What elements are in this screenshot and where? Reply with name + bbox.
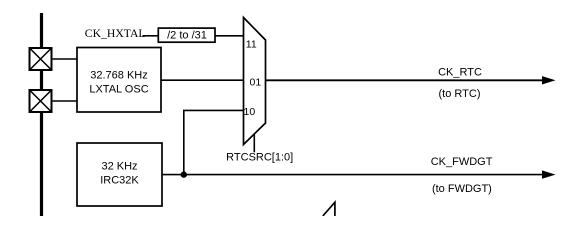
svg-text:(to FWDGT): (to FWDGT) bbox=[432, 183, 492, 195]
svg-text:32 KHz: 32 KHz bbox=[101, 161, 137, 173]
svg-text:CK_FWDGT: CK_FWDGT bbox=[431, 156, 493, 168]
svg-text:(to RTC): (to RTC) bbox=[439, 88, 481, 100]
svg-text:CK_RTC: CK_RTC bbox=[438, 67, 482, 79]
svg-text:32.768 KHz: 32.768 KHz bbox=[90, 69, 147, 81]
svg-text:IRC32K: IRC32K bbox=[100, 175, 139, 187]
svg-text:10: 10 bbox=[244, 106, 256, 118]
svg-text:01: 01 bbox=[250, 76, 262, 88]
svg-text:RTCSRC[1:0]: RTCSRC[1:0] bbox=[226, 151, 293, 163]
svg-text:11: 11 bbox=[246, 39, 257, 51]
svg-text:CK_HXTAL: CK_HXTAL bbox=[85, 27, 146, 40]
svg-text:LXTAL OSC: LXTAL OSC bbox=[89, 83, 148, 95]
svg-text:/2 to /31: /2 to /31 bbox=[167, 29, 207, 41]
